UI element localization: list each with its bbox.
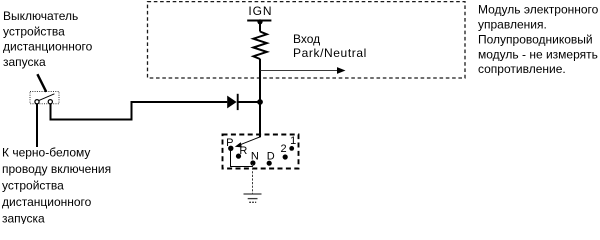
- switch S1 left terminal: [35, 100, 39, 104]
- wire: switch left terminal down to harness label: [36, 104, 38, 147]
- wire: diode cathode to junction: [238, 101, 260, 103]
- diode D1: [227, 96, 236, 109]
- wire: IGN bar to resistor top: [259, 20, 261, 31]
- svg-text:2: 2: [280, 143, 286, 155]
- svg-text:ВходPark/Neutral: ВходPark/Neutral: [293, 32, 367, 60]
- contact D dot: [267, 161, 272, 166]
- ground symbol: [244, 194, 262, 202]
- wire: resistor bottom through diode junction down to selector wiper: [259, 59, 261, 138]
- contact 1 dot: [289, 146, 294, 151]
- wire: switch right terminal to diode anode: [51, 102, 228, 120]
- contact P dot: [228, 146, 233, 151]
- svg-text:Модуль электронногоуправления.: Модуль электронногоуправления.Полупровод…: [478, 3, 599, 77]
- wire: N contact down to ground: [252, 164, 254, 194]
- svg-text:D: D: [267, 151, 275, 163]
- contact R dot: [236, 154, 241, 159]
- svg-text:Выключательустройствадистанцио: Выключательустройствадистанционногозапус…: [3, 9, 93, 69]
- resistor R1 (Park/Neutral pull-up): [253, 32, 266, 60]
- switch S1 contact arm: [39, 94, 54, 101]
- contact 2 dot: [283, 154, 288, 159]
- junction: IGN node dot: [257, 19, 262, 24]
- selector wiper arm with arrowhead pointing at P: [239, 137, 260, 145]
- IGN terminal bar: [247, 20, 271, 22]
- svg-text:К черно-беломупроводу включени: К черно-беломупроводу включенияустройств…: [2, 145, 111, 224]
- junction: diode/resistor/selector node dot: [257, 99, 263, 105]
- switch S1 body (dotted box): [30, 92, 59, 104]
- switch S1 right terminal: [48, 100, 52, 104]
- switch S1 actuator lever: [37, 74, 46, 92]
- transmission range selector enclosure (dashed box): [223, 135, 299, 169]
- svg-text:1: 1: [290, 135, 296, 147]
- wire: P contact down and over to N contact: [231, 150, 254, 167]
- contact N dot: [250, 160, 255, 165]
- ECM module enclosure (dashed box): [148, 2, 466, 78]
- svg-text:IGN: IGN: [248, 4, 272, 18]
- arrow: Park/Neutral input signal: [261, 70, 339, 72]
